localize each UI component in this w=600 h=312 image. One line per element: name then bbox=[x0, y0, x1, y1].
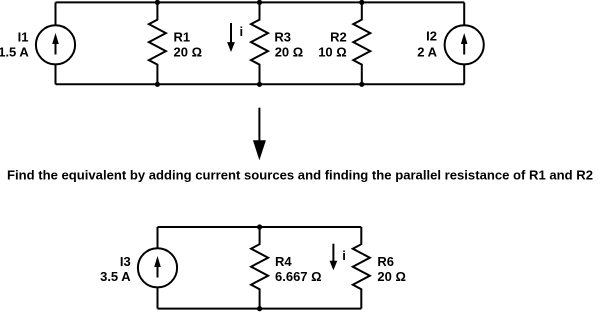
current arrow i (lower circuit) bbox=[330, 244, 338, 271]
label R1 20 ohm bbox=[174, 29, 203, 59]
svg-text:2 A: 2 A bbox=[417, 45, 437, 60]
wire I2 bottom stub bbox=[463, 64, 465, 84]
svg-text:20 Ω: 20 Ω bbox=[275, 45, 304, 60]
resistor R4 bbox=[251, 227, 268, 309]
svg-text:20 Ω: 20 Ω bbox=[377, 269, 406, 284]
svg-text:3.5 A: 3.5 A bbox=[100, 269, 131, 284]
wire bottom rail of upper circuit bbox=[56, 83, 465, 85]
label R4 6.667 ohm bbox=[275, 254, 322, 284]
wire top rail of lower circuit bbox=[158, 226, 362, 228]
current arrow i (upper circuit) bbox=[227, 23, 235, 52]
resistor R2 bbox=[353, 2, 370, 84]
svg-text:20 Ω: 20 Ω bbox=[174, 44, 203, 59]
node at R2 top bbox=[359, 0, 364, 5]
svg-text:I2: I2 bbox=[426, 29, 437, 44]
label I3 3.5 A bbox=[100, 254, 131, 284]
node at R3 top bbox=[257, 0, 262, 5]
node at R3 bottom bbox=[257, 82, 262, 87]
svg-text:R2: R2 bbox=[330, 29, 347, 44]
node at R4 top bbox=[257, 224, 262, 229]
svg-text:R1: R1 bbox=[174, 29, 191, 44]
wire I3 top stub bbox=[157, 227, 159, 248]
svg-text:R6: R6 bbox=[377, 254, 394, 269]
node at R1 bottom bbox=[155, 82, 160, 87]
label R6 20 ohm bbox=[377, 254, 406, 284]
wire bottom rail of lower circuit bbox=[158, 308, 362, 310]
svg-text:i: i bbox=[342, 248, 346, 263]
svg-text:Find the equivalent by adding: Find the equivalent by adding current so… bbox=[7, 168, 593, 183]
resistor R6 bbox=[353, 227, 370, 309]
svg-text:I3: I3 bbox=[120, 254, 131, 269]
wire I2 top stub bbox=[463, 2, 465, 25]
wire I3 bottom stub bbox=[157, 287, 159, 308]
wire I1 bottom stub bbox=[55, 64, 57, 84]
svg-text:10 Ω: 10 Ω bbox=[318, 45, 347, 60]
wire I1 top stub bbox=[55, 2, 57, 25]
svg-text:R3: R3 bbox=[274, 29, 291, 44]
transformation arrow (down) bbox=[253, 108, 266, 161]
current source I3 bbox=[138, 227, 177, 309]
label I2 2 A bbox=[417, 29, 437, 60]
node at R1 top bbox=[155, 0, 160, 5]
wire top rail of upper circuit bbox=[56, 1, 465, 3]
resistor R3 bbox=[251, 2, 268, 84]
label I1 1.5 A bbox=[0, 29, 29, 59]
label R3 20 ohm bbox=[274, 29, 303, 59]
node at R4 bottom bbox=[257, 306, 262, 311]
svg-text:I1: I1 bbox=[18, 29, 29, 44]
current source I2 bbox=[445, 2, 484, 84]
label R2 10 ohm bbox=[318, 29, 347, 59]
node at R2 bottom bbox=[359, 82, 364, 87]
svg-text:6.667 Ω: 6.667 Ω bbox=[275, 269, 322, 284]
current source I1 bbox=[36, 2, 75, 84]
svg-text:1.5 A: 1.5 A bbox=[0, 44, 29, 59]
resistor R1 bbox=[149, 2, 166, 84]
svg-text:i: i bbox=[240, 24, 244, 39]
svg-text:R4: R4 bbox=[275, 254, 292, 269]
